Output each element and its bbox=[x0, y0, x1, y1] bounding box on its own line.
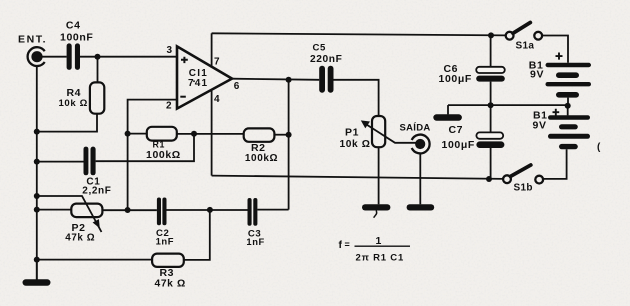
svg-text:9V: 9V bbox=[533, 120, 547, 132]
svg-text:220nF: 220nF bbox=[310, 54, 342, 65]
svg-text:1nF: 1nF bbox=[156, 236, 174, 247]
svg-text:10k Ω: 10k Ω bbox=[340, 139, 371, 150]
svg-text:R1: R1 bbox=[153, 140, 165, 150]
svg-text:741: 741 bbox=[188, 78, 208, 89]
svg-text:100nF: 100nF bbox=[60, 31, 93, 43]
svg-text:C7: C7 bbox=[449, 124, 464, 136]
svg-text:47k Ω: 47k Ω bbox=[155, 278, 186, 289]
svg-text:4: 4 bbox=[214, 94, 220, 105]
svg-text:6: 6 bbox=[234, 81, 240, 92]
svg-text:P1: P1 bbox=[345, 127, 359, 139]
svg-text:2π R1 C1: 2π R1 C1 bbox=[356, 253, 405, 264]
svg-text:=: = bbox=[345, 240, 350, 250]
svg-text:SAÍDA: SAÍDA bbox=[400, 123, 431, 134]
svg-text:2: 2 bbox=[166, 101, 172, 112]
svg-text:R3: R3 bbox=[160, 267, 175, 279]
svg-text:100μF: 100μF bbox=[442, 139, 475, 151]
svg-text:10k Ω: 10k Ω bbox=[59, 98, 88, 109]
svg-text:f: f bbox=[339, 239, 343, 251]
svg-text:100kΩ: 100kΩ bbox=[146, 149, 181, 161]
svg-text:C5: C5 bbox=[313, 43, 327, 54]
svg-text:7: 7 bbox=[214, 56, 220, 67]
svg-text:C4: C4 bbox=[66, 20, 81, 32]
svg-text:9V: 9V bbox=[530, 69, 544, 81]
svg-text:47k Ω: 47k Ω bbox=[65, 233, 95, 244]
svg-text:1nF: 1nF bbox=[246, 236, 264, 247]
svg-text:S1a: S1a bbox=[516, 41, 535, 52]
svg-text:ENT.: ENT. bbox=[18, 34, 47, 46]
svg-text:100μF: 100μF bbox=[439, 73, 472, 85]
svg-text:2,2nF: 2,2nF bbox=[82, 185, 111, 196]
svg-text:1: 1 bbox=[376, 235, 382, 247]
svg-text:3: 3 bbox=[167, 45, 173, 56]
svg-text:S1b: S1b bbox=[514, 183, 533, 194]
svg-text:100kΩ: 100kΩ bbox=[245, 153, 278, 164]
